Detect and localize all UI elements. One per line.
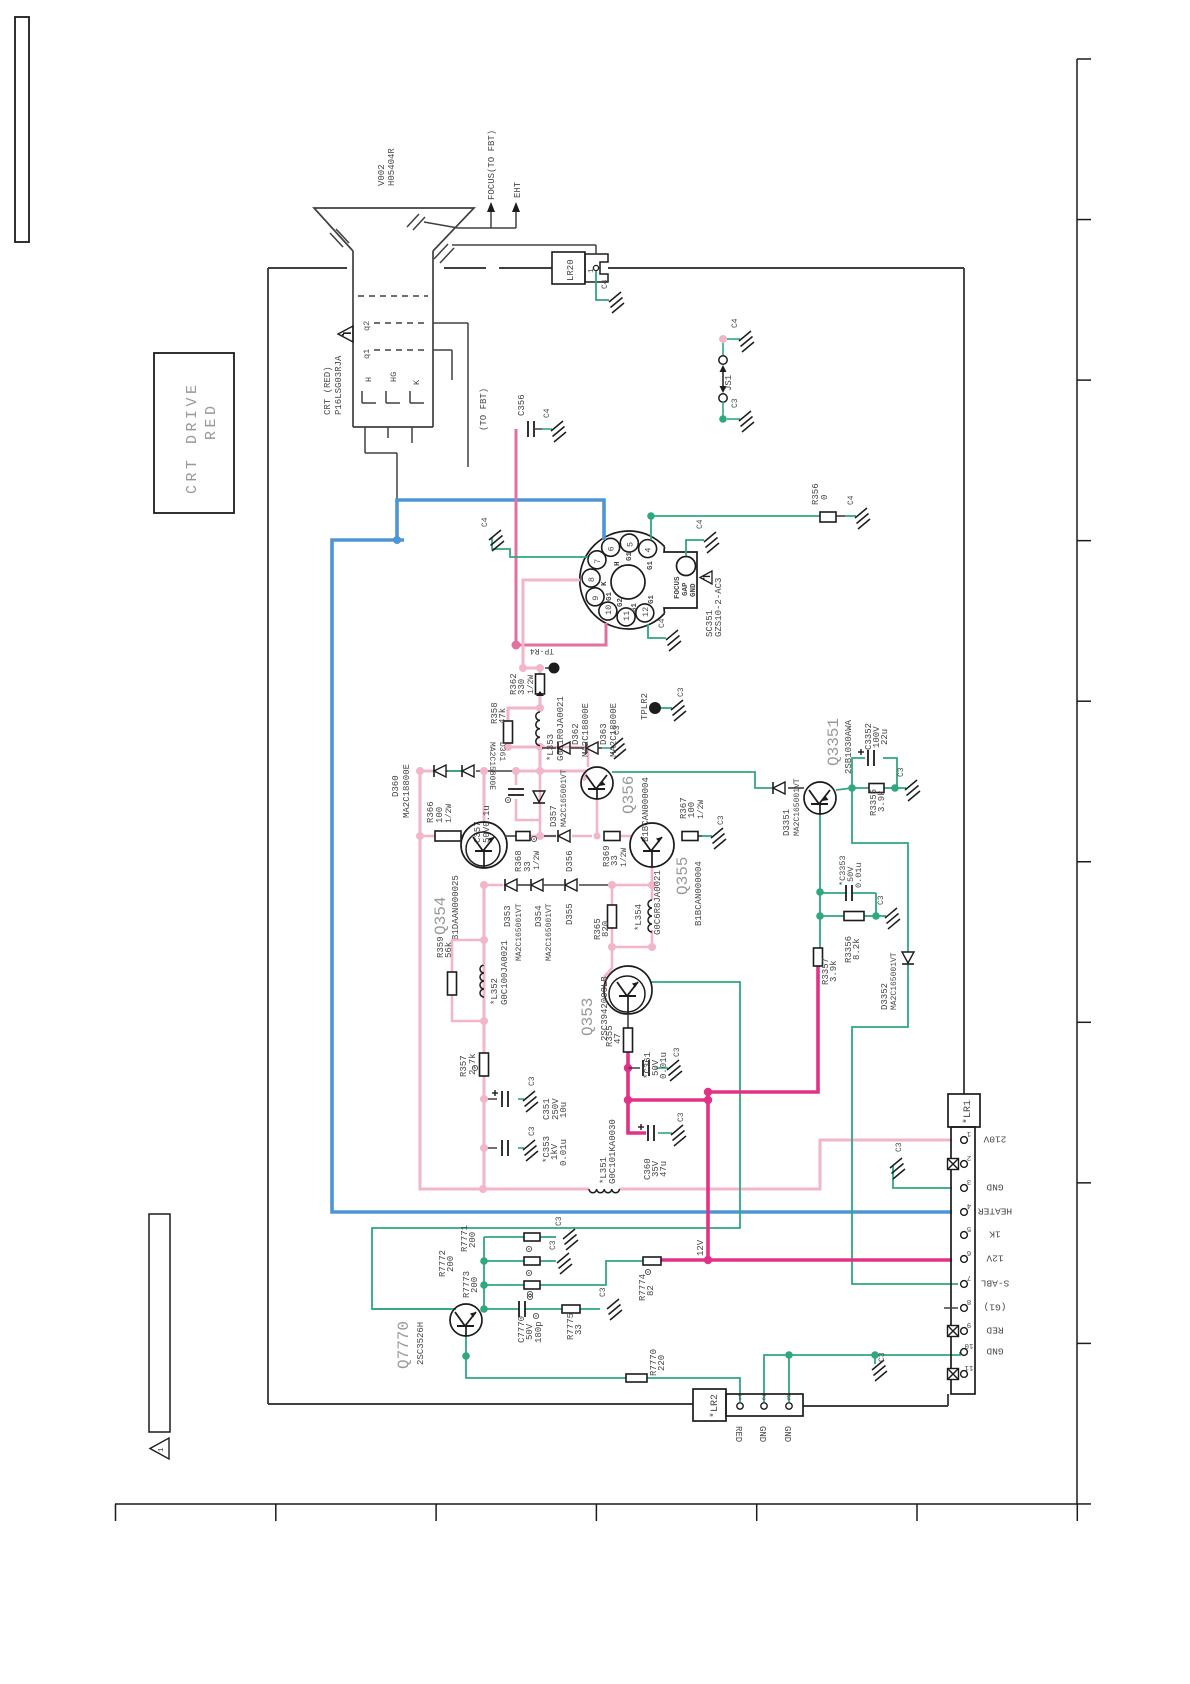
svg-text:8: 8 — [587, 577, 597, 582]
svg-text:C4: C4 — [481, 517, 490, 527]
svg-text:D361: D361 — [497, 742, 506, 761]
svg-text:C3: C3 — [897, 767, 906, 777]
svg-text:MA2C18800E: MA2C18800E — [609, 703, 619, 757]
svg-text:D355: D355 — [565, 903, 575, 925]
svg-text:TPLR2: TPLR2 — [640, 693, 650, 720]
svg-text:3.9k: 3.9k — [829, 960, 839, 982]
svg-text:2SB1030AWA: 2SB1030AWA — [844, 719, 854, 774]
svg-text:HG: HG — [389, 372, 399, 382]
svg-text:C356: C356 — [517, 394, 527, 416]
svg-text:220: 220 — [657, 1355, 667, 1371]
svg-text:3: 3 — [966, 1177, 971, 1185]
svg-text:G1: G1 — [626, 551, 634, 561]
svg-text:JS1: JS1 — [724, 375, 734, 391]
svg-text:H: H — [614, 561, 622, 566]
svg-text:MA2C15800E: MA2C15800E — [487, 742, 496, 790]
svg-text:6: 6 — [966, 1248, 971, 1256]
svg-text:1: 1 — [737, 1392, 742, 1400]
svg-text:D360: D360 — [391, 775, 401, 797]
svg-text:Q354: Q354 — [432, 897, 450, 935]
svg-text:7: 7 — [593, 559, 603, 564]
svg-text:TP-R4: TP-R4 — [530, 646, 554, 655]
svg-text:47u: 47u — [659, 1161, 669, 1177]
svg-text:56k: 56k — [444, 942, 454, 958]
svg-text:1: 1 — [158, 1447, 166, 1452]
svg-text:RED: RED — [986, 1325, 1003, 1336]
svg-text:CRT (RED): CRT (RED) — [323, 366, 333, 415]
svg-text:12V: 12V — [986, 1253, 1003, 1264]
svg-text:3: 3 — [786, 1392, 791, 1400]
svg-text:11: 11 — [964, 1363, 974, 1371]
svg-text:*L352: *L352 — [490, 978, 500, 1005]
svg-text:1: 1 — [966, 1129, 971, 1137]
svg-text:100: 100 — [435, 807, 445, 823]
svg-text:C4: C4 — [543, 408, 552, 418]
svg-text:R356: R356 — [811, 483, 821, 505]
svg-text:50V0.1u: 50V0.1u — [482, 805, 492, 843]
svg-text:G1: G1 — [647, 560, 655, 570]
svg-text:G1: G1 — [648, 594, 656, 604]
svg-text:33: 33 — [610, 855, 620, 866]
svg-text:6: 6 — [607, 546, 617, 551]
svg-text:2.7k: 2.7k — [468, 1053, 478, 1075]
svg-text:2: 2 — [762, 1392, 767, 1400]
svg-text:47: 47 — [613, 1033, 623, 1044]
svg-text:Q3351: Q3351 — [825, 718, 843, 766]
svg-text:G1: G1 — [631, 602, 639, 612]
svg-text:*L354: *L354 — [634, 904, 644, 931]
svg-text:C3: C3 — [549, 1240, 558, 1250]
svg-text:820: 820 — [601, 921, 611, 937]
svg-text:9: 9 — [967, 1320, 972, 1328]
svg-text:MA2C165001VT: MA2C165001VT — [560, 769, 569, 827]
svg-text:GND: GND — [986, 1182, 1003, 1193]
svg-text:C3: C3 — [677, 1112, 686, 1122]
svg-text:4: 4 — [644, 548, 654, 553]
svg-text:9: 9 — [591, 596, 601, 601]
svg-text:H05404R: H05404R — [387, 148, 397, 186]
svg-text:5: 5 — [966, 1224, 971, 1232]
svg-text:GZS10-2-AC3: GZS10-2-AC3 — [714, 578, 724, 637]
svg-text:100: 100 — [687, 802, 697, 818]
svg-text:2: 2 — [967, 1153, 972, 1161]
svg-text:C3: C3 — [555, 1216, 564, 1226]
svg-text:(G1): (G1) — [984, 1302, 1007, 1313]
svg-text:G1: G1 — [606, 591, 614, 601]
svg-text:D353: D353 — [503, 905, 513, 927]
svg-text:MA2C18800E: MA2C18800E — [402, 764, 412, 818]
svg-text:5: 5 — [625, 542, 635, 547]
svg-text:C4: C4 — [658, 618, 667, 628]
svg-text:D363: D363 — [599, 723, 609, 745]
svg-text:C3: C3 — [677, 687, 686, 697]
svg-text:1: 1 — [588, 268, 596, 273]
svg-text:GND: GND — [757, 1426, 767, 1442]
svg-text:C3: C3 — [599, 1287, 608, 1297]
svg-text:200: 200 — [468, 1232, 478, 1248]
svg-text:q1: q1 — [362, 349, 372, 359]
svg-text:C3: C3 — [528, 1126, 537, 1136]
svg-text:210V: 210V — [983, 1134, 1006, 1145]
svg-text:*LR1: *LR1 — [962, 1100, 974, 1124]
svg-text:33: 33 — [574, 1324, 584, 1335]
svg-text:q2: q2 — [362, 321, 372, 331]
svg-text:C3: C3 — [717, 815, 726, 825]
svg-text:GND: GND — [690, 583, 698, 597]
svg-text:RED: RED — [733, 1426, 743, 1442]
svg-text:S-ABL: S-ABL — [980, 1278, 1009, 1289]
svg-text:LR20: LR20 — [566, 259, 576, 281]
svg-text:C4: C4 — [731, 318, 740, 328]
svg-text:HEATER: HEATER — [978, 1206, 1013, 1217]
svg-text:10: 10 — [604, 605, 614, 615]
svg-text:47k: 47k — [498, 708, 508, 724]
svg-text:MA2C165001VT: MA2C165001VT — [545, 903, 554, 961]
svg-text:1/2W: 1/2W — [620, 848, 629, 867]
svg-text:8.2k: 8.2k — [852, 938, 862, 960]
svg-text:C4: C4 — [601, 279, 610, 289]
svg-text:0.01u: 0.01u — [659, 1052, 669, 1079]
svg-text:K: K — [412, 379, 422, 385]
svg-text:Q355: Q355 — [674, 857, 692, 895]
svg-text:3.9k: 3.9k — [877, 790, 887, 812]
svg-text:8: 8 — [967, 1297, 972, 1305]
svg-text:(TO FBT): (TO FBT) — [479, 388, 489, 431]
svg-text:22u: 22u — [880, 729, 890, 745]
svg-text:0.01u: 0.01u — [854, 862, 864, 888]
svg-text:D362: D362 — [571, 723, 581, 745]
svg-text:0: 0 — [820, 495, 830, 500]
svg-text:200: 200 — [446, 1256, 456, 1272]
svg-text:Q356: Q356 — [620, 776, 638, 814]
svg-text:D3351: D3351 — [782, 809, 792, 836]
svg-text:12: 12 — [641, 607, 651, 617]
svg-text:B1BCAN000004: B1BCAN000004 — [694, 861, 704, 926]
svg-text:MA2C165001VT: MA2C165001VT — [793, 778, 802, 836]
svg-text:82: 82 — [646, 1285, 656, 1296]
svg-text:1K: 1K — [989, 1229, 1001, 1240]
svg-text:G2: G2 — [617, 597, 625, 607]
svg-text:4: 4 — [966, 1201, 971, 1209]
svg-text:C3: C3 — [878, 1352, 887, 1362]
svg-text:P16LSG03RJA: P16LSG03RJA — [334, 355, 344, 415]
svg-text:B1BCAN000004: B1BCAN000004 — [641, 777, 651, 842]
svg-text:V002: V002 — [377, 164, 387, 186]
svg-text:MA2C165001VT: MA2C165001VT — [515, 903, 524, 961]
svg-text:C3: C3 — [895, 1142, 904, 1152]
svg-text:EHT: EHT — [513, 181, 523, 198]
svg-text:1/2W: 1/2W — [445, 804, 454, 823]
svg-text:*LR2: *LR2 — [709, 1394, 721, 1418]
svg-text:D357: D357 — [549, 805, 559, 827]
svg-text:D354: D354 — [534, 905, 544, 927]
svg-text:FOCUS(TO FBT): FOCUS(TO FBT) — [487, 130, 497, 200]
svg-text:GAP: GAP — [682, 582, 690, 596]
svg-text:12V: 12V — [696, 1239, 706, 1256]
svg-text:C3: C3 — [877, 895, 886, 905]
svg-text:C3: C3 — [731, 398, 740, 408]
svg-text:G0C100JA0021: G0C100JA0021 — [500, 940, 510, 1005]
svg-text:330: 330 — [517, 679, 527, 695]
svg-text:2SC3526H: 2SC3526H — [416, 1322, 426, 1365]
svg-text:CRT DRIVE: CRT DRIVE — [184, 381, 201, 494]
svg-text:RED: RED — [203, 402, 220, 440]
svg-text:C4: C4 — [696, 519, 705, 529]
svg-text:GND: GND — [782, 1426, 792, 1442]
svg-text:K: K — [601, 581, 609, 586]
svg-text:C4: C4 — [847, 495, 856, 505]
svg-text:200: 200 — [470, 1277, 480, 1293]
svg-text:1/2W: 1/2W — [527, 675, 536, 694]
svg-text:180p: 180p — [534, 1321, 544, 1343]
svg-text:7: 7 — [967, 1273, 972, 1281]
svg-text:1/2W: 1/2W — [697, 800, 706, 819]
svg-text:10: 10 — [964, 1341, 974, 1349]
svg-text:D3352: D3352 — [880, 983, 890, 1010]
svg-text:33: 33 — [523, 861, 533, 872]
svg-text:H: H — [364, 377, 374, 382]
svg-text:G0C101KA0030: G0C101KA0030 — [608, 1119, 618, 1184]
svg-text:GND: GND — [986, 1346, 1003, 1357]
svg-text:1/2W: 1/2W — [533, 851, 542, 870]
svg-text:MA2C18800E: MA2C18800E — [581, 703, 591, 757]
svg-text:B1DAAN000025: B1DAAN000025 — [451, 875, 461, 940]
svg-text:C3: C3 — [528, 1076, 537, 1086]
svg-text:C3: C3 — [673, 1047, 682, 1057]
svg-text:D356: D356 — [565, 850, 575, 872]
svg-text:G0C6R8JA0021: G0C6R8JA0021 — [653, 870, 663, 935]
svg-text:10u: 10u — [559, 1102, 569, 1118]
svg-text:Q7770: Q7770 — [395, 1321, 413, 1369]
svg-text:Q353: Q353 — [579, 998, 597, 1036]
svg-text:FOCUS: FOCUS — [674, 576, 682, 599]
svg-text:MA2C165001VT: MA2C165001VT — [890, 952, 899, 1010]
svg-text:0.01u: 0.01u — [559, 1139, 569, 1166]
